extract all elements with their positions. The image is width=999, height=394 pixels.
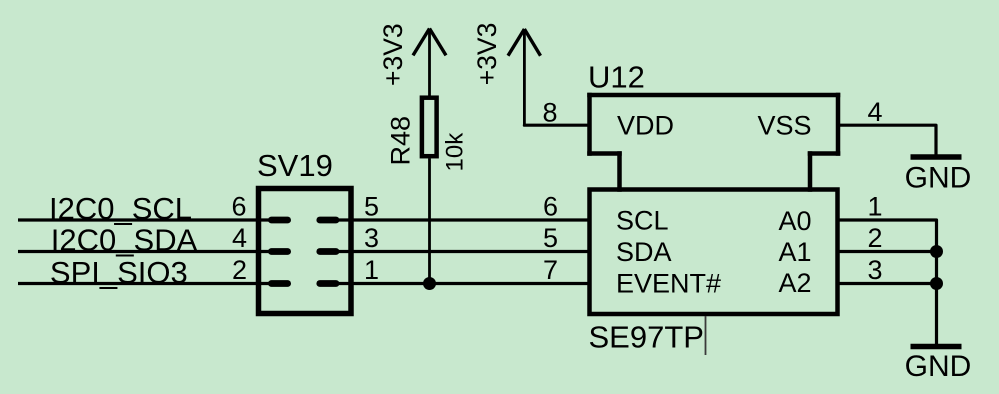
svg-text:4: 4 <box>232 223 247 253</box>
svg-text:EVENT#: EVENT# <box>616 269 721 299</box>
wire net I2C0_SCL left segment <box>18 218 270 221</box>
wire net EVENT connector to U12 <box>339 282 590 285</box>
svg-text:GND: GND <box>905 350 972 383</box>
wire net SCL connector to U12 <box>339 218 590 221</box>
svg-text:U12: U12 <box>588 60 645 95</box>
svg-text:I2C0_SCL: I2C0_SCL <box>49 191 192 226</box>
supply +3V3 symbol 2 arrow <box>508 29 541 125</box>
resistor R48 wire to junction <box>428 159 431 284</box>
svg-text:6: 6 <box>231 192 246 222</box>
svg-text:SDA: SDA <box>616 237 672 267</box>
supply +3V3 symbol 1 arrow <box>413 29 446 96</box>
IC U12 power box outline <box>590 95 839 190</box>
wire net SPI_SIO3 left segment <box>18 282 270 285</box>
svg-text:A0: A0 <box>779 206 812 236</box>
svg-text:SCL: SCL <box>616 206 669 236</box>
wire U12 pin 3 A2 <box>838 282 937 285</box>
wire U12 pin 1 A0 <box>838 220 937 344</box>
svg-text:SPI_SIO3: SPI_SIO3 <box>50 255 188 290</box>
svg-text:A2: A2 <box>779 268 812 298</box>
svg-text:4: 4 <box>868 97 883 127</box>
connector SV19 pin 4 pad <box>268 248 291 255</box>
svg-text:VDD: VDD <box>617 111 674 141</box>
junction dot A1 <box>930 245 943 258</box>
svg-text:7: 7 <box>543 255 558 285</box>
ground symbol top bar <box>911 154 962 160</box>
svg-text:1: 1 <box>364 255 379 285</box>
svg-text:R48: R48 <box>386 116 416 166</box>
connector SV19 pin 2 pad <box>268 280 291 287</box>
resistor R48 body <box>422 98 437 157</box>
svg-text:GND: GND <box>905 161 972 194</box>
svg-text:VSS: VSS <box>758 111 812 141</box>
wire +3V3 to U12 pin 8 <box>524 124 589 127</box>
svg-text:8: 8 <box>542 98 557 128</box>
connector SV19 pin 6 pad <box>268 217 291 224</box>
junction dot A2 <box>930 277 943 290</box>
svg-text:3: 3 <box>868 255 883 285</box>
svg-text:A1: A1 <box>779 237 812 267</box>
svg-text:SV19: SV19 <box>257 148 333 183</box>
svg-text:5: 5 <box>543 223 558 253</box>
wire net SDA connector to U12 <box>339 250 590 253</box>
text cursor after SE97TP <box>705 316 707 355</box>
connector SV19 body <box>259 189 352 314</box>
junction dot at R48 / SPI_SIO3 <box>423 277 436 290</box>
svg-text:5: 5 <box>364 192 379 222</box>
svg-text:1: 1 <box>868 192 883 222</box>
U12 main box <box>590 190 838 315</box>
connector SV19 pin 3 pad <box>316 248 339 255</box>
connector SV19 pin 1 pad <box>316 280 339 287</box>
svg-text:3: 3 <box>364 223 379 253</box>
wire net I2C0_SDA left segment <box>18 250 270 253</box>
svg-text:+3V3: +3V3 <box>378 23 408 86</box>
ground symbol bottom bar <box>911 344 962 350</box>
svg-text:I2C0_SDA: I2C0_SDA <box>51 223 198 258</box>
svg-text:2: 2 <box>232 255 247 285</box>
svg-text:6: 6 <box>543 192 558 222</box>
connector SV19 pin 5 pad <box>316 217 339 224</box>
svg-text:+3V3: +3V3 <box>472 23 502 86</box>
svg-text:10k: 10k <box>442 132 469 172</box>
svg-text:2: 2 <box>868 223 883 253</box>
wire U12 pin 4 to GND <box>838 125 936 154</box>
wire U12 pin 2 A1 <box>838 250 937 253</box>
svg-text:SE97TP: SE97TP <box>589 320 704 355</box>
